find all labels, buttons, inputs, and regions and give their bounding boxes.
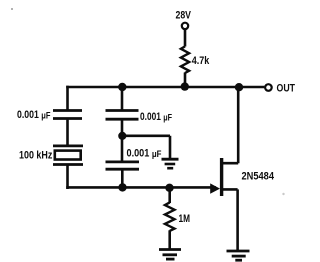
- crystal Y1 top plate: [53, 144, 83, 147]
- transistor Q1 gate arrow: [210, 183, 220, 193]
- wire R2 to ground G2: [168, 230, 171, 248]
- svg-text:2N5484: 2N5484: [242, 171, 275, 183]
- svg-text:0.001 μF: 0.001 μF: [17, 109, 51, 122]
- wire source vertical: [236, 189, 239, 250]
- ground G2 (below R2): [159, 250, 181, 260]
- wire R1 to top rail: [184, 73, 187, 88]
- crystal Y1 body box: [55, 151, 81, 160]
- node junction dot top wire at R1: [181, 82, 189, 90]
- transistor Q1 channel bar: [220, 158, 223, 196]
- scan speck right: [282, 193, 284, 195]
- wire middle branch between C2 and C3: [121, 120, 124, 162]
- resistor R2 1M zigzag: [165, 202, 175, 231]
- wire middle branch lower: [121, 170, 124, 189]
- wire left branch lower: [66, 166, 69, 190]
- ground G1 (decoupling node): [162, 159, 179, 168]
- node junction dot top wire at C2 branch: [118, 83, 126, 91]
- svg-text:0.001 μF: 0.001 μF: [140, 111, 172, 124]
- terminal OUT circle: [265, 84, 272, 91]
- node junction dot top wire at drain branch: [235, 83, 243, 91]
- wire bottom rail / gate lead: [66, 186, 216, 189]
- wire 28V terminal to R1: [184, 30, 187, 47]
- wire source horizontal: [221, 188, 238, 191]
- capacitor C1 plates: [53, 111, 82, 119]
- capacitor C3 plates: [106, 162, 140, 169]
- wire bottom node to R2: [168, 187, 171, 203]
- node junction dot bottom wire at R2 branch: [165, 184, 173, 192]
- wire middle branch upper: [121, 86, 124, 110]
- svg-text:1M: 1M: [179, 213, 191, 225]
- node junction dot between C2 and C3: [118, 132, 126, 140]
- svg-text:4.7k: 4.7k: [192, 55, 210, 67]
- resistor R1 4.7k zigzag: [181, 46, 189, 73]
- scan speck top-left: [11, 8, 13, 10]
- wire left branch upper: [66, 86, 69, 111]
- svg-text:28V: 28V: [176, 9, 192, 21]
- terminal 28V circle: [182, 23, 188, 29]
- wire node to ground G1 horizontal: [122, 135, 170, 138]
- ground G3 (source): [227, 251, 250, 260]
- wire node to ground G1 vertical: [169, 136, 172, 158]
- svg-text:100 kHz: 100 kHz: [19, 150, 53, 162]
- svg-text:OUT: OUT: [277, 83, 296, 95]
- crystal Y1 bottom plate: [53, 163, 83, 166]
- node junction dot bottom wire at C3 branch: [118, 183, 126, 191]
- wire drain horizontal: [221, 162, 238, 165]
- svg-text:0.001 μF: 0.001 μF: [127, 147, 162, 160]
- wire drain vertical: [237, 87, 240, 163]
- wire left branch between C1 and crystal: [66, 120, 69, 145]
- capacitor C2 plates: [106, 111, 139, 120]
- wire top rail: [66, 86, 264, 89]
